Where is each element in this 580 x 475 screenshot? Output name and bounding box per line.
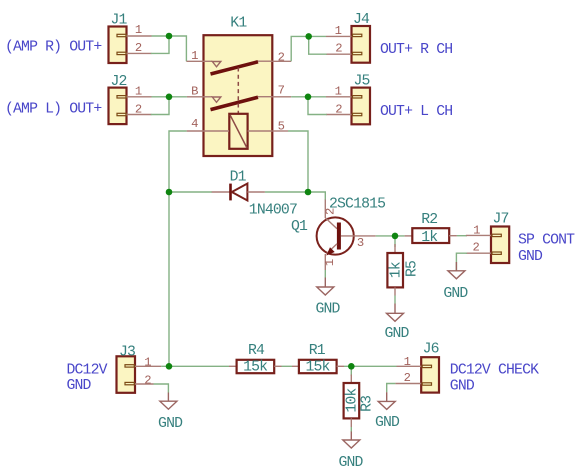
resistor R3 <box>344 375 376 428</box>
node junction J2 <box>166 94 173 101</box>
svg-text:D1: D1 <box>230 170 247 186</box>
svg-text:GND: GND <box>450 379 475 395</box>
svg-text:OUT+ L CH: OUT+ L CH <box>380 104 452 120</box>
wire D1 to node right <box>265 191 308 193</box>
wire R2 to J7 <box>457 235 467 237</box>
ground R3 <box>338 432 363 472</box>
wire J6 pin2 down <box>387 384 396 393</box>
wire Q1 base to node <box>376 235 405 237</box>
svg-text:Q1: Q1 <box>291 219 308 235</box>
transistor Q1 <box>291 196 385 270</box>
svg-text:R4: R4 <box>248 343 265 359</box>
node junction D1 right <box>305 189 312 196</box>
resistor R2 <box>405 212 457 246</box>
svg-text:2: 2 <box>278 50 285 64</box>
wire J2 pin1 to relay B <box>152 96 187 98</box>
svg-text:B: B <box>191 85 198 99</box>
connector J1 <box>109 13 152 63</box>
svg-text:OUT+ R CH: OUT+ R CH <box>380 42 452 58</box>
svg-text:4: 4 <box>191 117 198 131</box>
connector J5 <box>326 74 370 125</box>
svg-text:J2: J2 <box>111 74 127 90</box>
wire J4 pin2 loop <box>309 36 327 54</box>
svg-text:DC12V CHECK: DC12V CHECK <box>450 363 539 379</box>
svg-text:GND: GND <box>67 378 92 394</box>
svg-text:J3: J3 <box>119 344 135 360</box>
svg-text:GND: GND <box>518 249 543 265</box>
svg-text:15k: 15k <box>306 360 331 376</box>
svg-text:R2: R2 <box>421 212 437 228</box>
connector J7 <box>466 212 509 263</box>
wire node to R5 <box>394 236 396 247</box>
svg-text:J4: J4 <box>353 12 370 28</box>
wire Q1 emitter <box>324 270 326 278</box>
svg-text:1: 1 <box>323 259 337 266</box>
svg-text:GND: GND <box>443 286 468 302</box>
svg-text:2: 2 <box>472 240 479 254</box>
relay K1 <box>186 16 291 156</box>
svg-text:R3: R3 <box>360 396 376 412</box>
ground Q1 <box>315 278 340 318</box>
node junction J4 <box>305 33 312 40</box>
ground J7 <box>443 262 468 302</box>
diode D1 <box>212 170 297 219</box>
svg-text:GND: GND <box>384 326 409 342</box>
svg-text:2: 2 <box>324 208 338 215</box>
svg-text:GND: GND <box>158 416 183 432</box>
svg-text:SP CONT: SP CONT <box>518 233 575 249</box>
svg-text:2: 2 <box>335 41 342 55</box>
wire relay pin4 rail down left <box>169 131 187 366</box>
svg-text:7: 7 <box>278 84 285 98</box>
node junction base <box>392 233 399 240</box>
svg-text:(AMP L) OUT+: (AMP L) OUT+ <box>5 102 102 118</box>
wire relay pin7 to J5 <box>291 96 326 98</box>
svg-text:1: 1 <box>191 49 198 63</box>
connector J2 <box>109 74 152 124</box>
ground R5 <box>384 304 409 343</box>
svg-text:2: 2 <box>144 373 151 387</box>
svg-text:3: 3 <box>357 236 364 250</box>
wire node to Q1 collector <box>308 192 325 200</box>
svg-text:J5: J5 <box>354 74 370 90</box>
svg-text:GND: GND <box>375 415 400 431</box>
wire relay pin2 to J4 <box>291 36 326 61</box>
wire R4 to R1 <box>282 365 293 367</box>
wire J1 pin2 loop <box>151 36 169 53</box>
svg-text:DC12V: DC12V <box>67 363 108 379</box>
wire R1 to node <box>344 365 397 367</box>
node junction D1 left <box>166 189 173 196</box>
svg-text:J1: J1 <box>111 13 128 29</box>
wire R3 bottom <box>350 427 352 432</box>
svg-text:J7: J7 <box>493 212 509 228</box>
connector J4 <box>326 12 370 63</box>
node junction J1 <box>166 33 173 40</box>
svg-text:1k: 1k <box>421 230 438 246</box>
svg-text:5: 5 <box>278 120 285 134</box>
svg-text:J6: J6 <box>423 341 439 357</box>
node junction J5 <box>305 94 312 101</box>
wire node to R3 <box>350 366 352 376</box>
resistor R5 <box>387 244 420 296</box>
resistor R1 <box>292 343 344 376</box>
resistor R4 <box>229 343 282 376</box>
svg-text:GND: GND <box>315 301 340 317</box>
wire node to D1 <box>169 191 212 193</box>
svg-text:1: 1 <box>144 355 151 369</box>
connector J3 <box>117 344 162 393</box>
svg-text:(AMP R) OUT+: (AMP R) OUT+ <box>5 40 102 56</box>
wire J2 pin2 loop <box>151 97 169 115</box>
svg-text:15k: 15k <box>243 360 268 376</box>
svg-text:1k: 1k <box>388 261 404 278</box>
node junction J3 <box>166 363 173 370</box>
svg-text:GND: GND <box>338 455 363 471</box>
wire J3 pin2 down <box>154 384 169 393</box>
svg-text:10k: 10k <box>345 388 361 413</box>
svg-text:K1: K1 <box>230 16 247 32</box>
svg-text:1: 1 <box>135 23 142 37</box>
node junction R1 J6 <box>348 363 355 370</box>
wire J5 pin2 loop <box>308 97 327 115</box>
wire R5 bottom <box>394 296 396 304</box>
wire relay pin5 down <box>288 131 308 192</box>
svg-text:R5: R5 <box>405 261 421 277</box>
connector J6 <box>395 341 439 392</box>
svg-text:1N4007: 1N4007 <box>249 203 297 219</box>
wire J1 pin1 to node <box>152 36 187 61</box>
wire J7 pin2 down <box>456 253 467 271</box>
svg-text:R1: R1 <box>309 343 326 359</box>
wire node to R4 <box>169 365 229 367</box>
wire J3 pin1 to node <box>161 365 169 367</box>
ground J6 <box>375 392 400 431</box>
ground J3 <box>158 393 183 433</box>
